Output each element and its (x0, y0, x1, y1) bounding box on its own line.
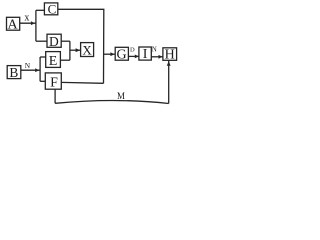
block F (45, 73, 61, 91)
block B (7, 65, 21, 80)
wire M bottom feedback (55, 100, 169, 103)
block G (115, 47, 128, 62)
arrowhead up into H (167, 61, 171, 66)
wire into X (70, 49, 81, 51)
block H (163, 47, 177, 62)
arrowhead into H (159, 55, 163, 59)
wire branch to C (36, 9, 45, 11)
svg-text:H: H (165, 47, 175, 62)
svg-text:B: B (9, 65, 18, 80)
svg-text:x: x (24, 13, 29, 24)
svg-text:N: N (152, 47, 157, 54)
block I (139, 47, 151, 62)
block C (44, 1, 57, 16)
svg-text:D: D (130, 46, 135, 53)
wire up into H bottom (168, 61, 170, 104)
wire branch to F (40, 80, 45, 82)
arrowhead A output (31, 21, 35, 25)
wire F right output (61, 81, 103, 84)
wire C output and right bus vertical (58, 9, 104, 83)
wire F bottom down (54, 89, 56, 103)
svg-text:G: G (117, 48, 127, 63)
arrowhead into G (110, 52, 114, 56)
block X (81, 42, 94, 57)
svg-text:C: C (48, 1, 57, 16)
svg-text:M: M (117, 91, 125, 101)
svg-text:X: X (82, 42, 92, 57)
arrowhead into I (135, 55, 139, 59)
wire A output (20, 22, 36, 24)
wire D output (61, 40, 70, 42)
wire I to H (151, 56, 162, 58)
wire branch to E (40, 56, 46, 58)
svg-text:F: F (50, 76, 58, 91)
arrowhead into X (76, 48, 81, 52)
svg-text:D: D (49, 34, 59, 49)
svg-text:A: A (8, 17, 19, 32)
svg-text:I: I (143, 47, 148, 62)
wire E output (60, 59, 70, 61)
block A (7, 17, 20, 32)
wire A branch vertical (35, 10, 37, 41)
arrowhead B output (35, 68, 39, 72)
wire merge vertical D/E (69, 41, 71, 60)
block D (47, 34, 61, 49)
svg-text:E: E (49, 54, 58, 69)
block E (46, 52, 61, 69)
wire branch to D (36, 40, 47, 42)
wire bus into G (104, 53, 115, 55)
wire B branch vertical (39, 57, 41, 81)
wire B output (21, 69, 40, 71)
svg-text:N: N (25, 61, 31, 70)
wire G to I (128, 55, 139, 57)
